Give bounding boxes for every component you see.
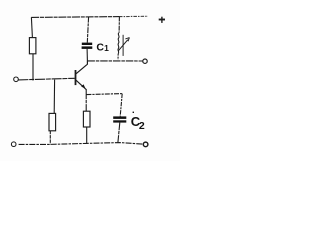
- svg-text:2: 2: [139, 120, 145, 132]
- svg-text:1: 1: [104, 43, 109, 53]
